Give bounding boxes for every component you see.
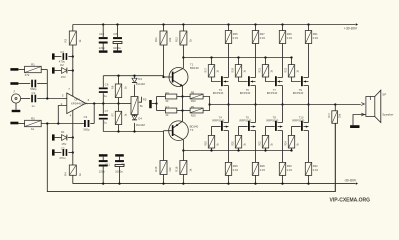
svg-text:R17: R17 xyxy=(327,112,331,117)
svg-text:0.33: 0.33 xyxy=(233,36,239,40)
resistor R17 gate (top row) xyxy=(211,58,213,65)
ground above C11 xyxy=(99,154,108,156)
ground at R1 xyxy=(10,68,18,71)
svg-text:D1: D1 xyxy=(61,130,65,134)
svg-text:R21: R21 xyxy=(259,67,262,72)
capacitor C7 1u xyxy=(102,104,104,114)
wire C11 to -rail xyxy=(102,166,104,183)
wire R23 to gate xyxy=(292,77,301,82)
node R30 at -rail xyxy=(281,182,283,184)
node feedback tap xyxy=(334,103,336,105)
node R18 at gate bus xyxy=(210,149,212,151)
node T2 emitter at R14 row xyxy=(181,109,183,111)
node T9 at output bus xyxy=(307,103,309,105)
svg-text:SP: SP xyxy=(382,92,386,96)
svg-text:OP1: OP1 xyxy=(74,98,80,102)
node R11 at +rail xyxy=(162,23,164,25)
wire top gate bus xyxy=(183,57,291,59)
capacitor C2 560p xyxy=(31,80,33,88)
svg-text:BD139: BD139 xyxy=(190,66,199,70)
ground at D1 xyxy=(52,134,55,140)
svg-text:+30-80V: +30-80V xyxy=(344,26,358,30)
resistor R29 0.33 (top row) xyxy=(282,25,284,31)
wire pin 7 supply xyxy=(72,91,74,96)
svg-text:IRFP240: IRFP240 xyxy=(240,91,251,95)
wire R15 to -rail xyxy=(163,175,165,184)
svg-text:2N4148: 2N4148 xyxy=(136,123,146,127)
svg-text:R20: R20 xyxy=(191,99,196,103)
svg-text:0.33: 0.33 xyxy=(313,36,319,40)
diode D4 2N4148 xyxy=(134,115,136,118)
wire R1 to node column xyxy=(41,69,47,71)
speaker SP xyxy=(361,103,364,106)
wire feedback resistor down xyxy=(334,123,336,191)
svg-text:220n: 220n xyxy=(99,170,106,174)
resistor R12 xyxy=(180,31,187,45)
svg-text:C6: C6 xyxy=(105,83,109,87)
wire R16 to -rail xyxy=(182,175,184,184)
wire gate to R18 xyxy=(212,127,221,136)
node R7 at bias bottom row xyxy=(117,130,119,132)
wire pin 2 to inverting node xyxy=(58,106,67,124)
svg-text:R29: R29 xyxy=(287,32,292,36)
svg-text:1u: 1u xyxy=(32,104,36,108)
wire gate to R22 xyxy=(266,127,275,136)
node C6 at output row xyxy=(102,102,104,104)
transistor T2 BD140 xyxy=(169,121,189,141)
wire T7 source to output bus xyxy=(282,86,284,105)
svg-text:R16: R16 xyxy=(174,166,178,171)
svg-text:IRFP9240: IRFP9240 xyxy=(212,119,225,123)
node D2 tap xyxy=(72,69,74,71)
svg-text:R7: R7 xyxy=(165,105,169,109)
node R22 at gate bus xyxy=(264,149,266,151)
svg-text:560p: 560p xyxy=(83,128,90,132)
resistor R2 1k xyxy=(25,120,42,126)
wire ground to D2 xyxy=(55,70,62,72)
op-amp OP1 KR544UD2A xyxy=(67,93,86,114)
node T3 at output bus xyxy=(227,103,229,105)
wire R32 to -rail xyxy=(308,175,310,183)
wire R28 to -rail xyxy=(255,175,257,183)
wire D1 to column xyxy=(68,137,73,139)
svg-text:33: 33 xyxy=(165,113,168,117)
wire jack ground lead xyxy=(15,103,17,110)
wire C8 to ground xyxy=(117,44,119,51)
wire R3 to pin7 node xyxy=(72,45,74,91)
svg-text:R6: R6 xyxy=(111,85,115,89)
node gate resistor R19 at gate bus xyxy=(237,56,239,58)
resistor R18 gate (bottom row) xyxy=(208,135,214,148)
svg-text:47k: 47k xyxy=(25,73,30,77)
node D1 tap xyxy=(72,136,74,138)
svg-text:R20: R20 xyxy=(191,113,196,117)
wire ground to R2 xyxy=(18,123,24,125)
wire R2 to inverting node xyxy=(41,123,84,125)
node R28 at -rail xyxy=(254,182,256,184)
resistor R27 0.33 (top row) xyxy=(255,25,257,31)
node pin2 riser at R2 row xyxy=(57,122,59,124)
wire C1 to op-amp pin 3 xyxy=(37,98,67,100)
svg-text:R24: R24 xyxy=(285,141,288,146)
MOSFET T9 IRFP240 xyxy=(301,76,303,86)
svg-text:15V: 15V xyxy=(61,75,66,79)
node C9 at -rail xyxy=(118,182,120,184)
wire +rail to R3 xyxy=(72,25,74,32)
svg-text:220n: 220n xyxy=(99,46,106,50)
svg-text:33: 33 xyxy=(165,99,168,103)
wire R25 to T3 drain xyxy=(228,44,230,78)
wire R26 to -rail xyxy=(228,175,230,183)
node C5 tap xyxy=(72,151,74,153)
svg-text:R11: R11 xyxy=(154,37,158,42)
svg-text:C7: C7 xyxy=(105,109,109,113)
svg-text:IRFP240: IRFP240 xyxy=(267,91,278,95)
connector J input jack xyxy=(11,94,20,103)
node source resistor R27 at +rail xyxy=(254,23,256,25)
node R16 at -rail xyxy=(182,182,184,184)
wire R9 to output node xyxy=(203,105,210,111)
wire gate to R20 xyxy=(239,127,248,136)
wire +rail to R11 xyxy=(163,25,165,32)
wire C3 to output riser xyxy=(90,123,94,125)
svg-text:1k: 1k xyxy=(31,127,35,131)
wire R11 to T1 base node xyxy=(163,45,165,77)
node T1 emitter at R13 row xyxy=(181,95,183,97)
wire R24 to gate bus xyxy=(291,148,293,151)
ground below C10 xyxy=(99,50,108,52)
ground at speaker xyxy=(350,125,359,128)
MOSFET T5 IRFP240 xyxy=(248,76,250,86)
svg-text:R1: R1 xyxy=(31,62,35,66)
node R15 at -rail xyxy=(162,182,164,184)
wire ground to C5 xyxy=(55,152,62,154)
svg-text:R32: R32 xyxy=(313,164,318,168)
node source resistor R29 at +rail xyxy=(281,23,283,25)
svg-text:IRFP9240: IRFP9240 xyxy=(266,119,279,123)
wire R29 to T7 drain xyxy=(282,44,284,78)
wire column to R4 xyxy=(72,153,74,166)
wire T9 source to output bus xyxy=(308,86,310,105)
node R6 at output row xyxy=(117,102,119,104)
svg-text:1u: 1u xyxy=(104,121,108,125)
node T1 collector / top gate bus xyxy=(182,56,184,58)
resistor R30 0.33 (bottom row) xyxy=(279,162,285,175)
svg-text:КР544УД2А: КР544УД2А xyxy=(71,102,88,106)
svg-text:R5: R5 xyxy=(143,98,147,102)
wire R7 to emitter column xyxy=(177,110,183,112)
node drive splitter xyxy=(155,102,157,104)
wire T6 source to R28 xyxy=(255,131,257,163)
resistor R7 33 bottom drive xyxy=(157,110,166,112)
svg-text:D2: D2 xyxy=(60,63,64,67)
trimmer resistor R5 5k xyxy=(131,97,138,115)
svg-text:R18: R18 xyxy=(205,141,208,146)
svg-text:C3: C3 xyxy=(84,115,88,119)
ground above C9 xyxy=(115,154,124,156)
transistor T1 BD139 xyxy=(169,68,188,87)
resistor R1 47k xyxy=(25,66,42,72)
svg-text:C8: C8 xyxy=(113,32,117,36)
svg-text:0.33: 0.33 xyxy=(287,36,293,40)
svg-text:D3: D3 xyxy=(138,77,142,81)
ground below C8 xyxy=(113,50,122,52)
svg-text:R17: R17 xyxy=(205,67,208,72)
svg-text:R9: R9 xyxy=(191,105,195,109)
wire ground to R1 xyxy=(18,69,24,71)
node gate resistor R23 at gate bus xyxy=(290,56,292,58)
svg-text:R22: R22 xyxy=(259,141,262,146)
ground at D2 xyxy=(52,67,55,73)
wire bias bottom row xyxy=(103,131,163,133)
wire compensation riser xyxy=(93,104,95,124)
node source resistor R31 at +rail xyxy=(307,23,309,25)
node source resistor R25 at +rail xyxy=(227,23,229,25)
wire C10 to ground xyxy=(102,44,104,51)
node output merge xyxy=(208,103,210,105)
resistor R4 xyxy=(69,165,76,175)
wire pin 6 output xyxy=(86,103,119,105)
ground at input jack xyxy=(12,110,21,112)
svg-text:-30-80V: -30-80V xyxy=(344,179,357,183)
ground at C5 xyxy=(52,149,55,155)
wire R5 wiper tap xyxy=(139,97,142,102)
svg-text:R8: R8 xyxy=(191,91,195,95)
wire T4 source to R26 xyxy=(228,131,230,163)
resistor R9 output merge bottom xyxy=(183,110,191,112)
svg-text:VIP-CXEMA.ORG: VIP-CXEMA.ORG xyxy=(330,198,371,204)
node T1 base xyxy=(162,76,164,78)
svg-text:1u: 1u xyxy=(104,94,108,98)
svg-text:R28: R28 xyxy=(260,164,265,168)
svg-text:R27: R27 xyxy=(260,32,265,36)
wire T5 source to output bus xyxy=(255,86,257,105)
wire bias top row xyxy=(103,75,163,77)
resistor R15 xyxy=(160,161,167,175)
svg-text:R2: R2 xyxy=(31,116,35,120)
wire bottom gate bus xyxy=(183,150,291,152)
wire +V top rail xyxy=(73,24,356,26)
ground at C4 xyxy=(52,53,55,59)
MOSFET T3 IRFP240 xyxy=(221,76,223,86)
wire T2 collector down xyxy=(182,140,184,161)
svg-text:0.33: 0.33 xyxy=(313,168,319,172)
node T7 at output bus xyxy=(281,103,283,105)
wire ground to C11 xyxy=(102,157,104,161)
wire C4 to column xyxy=(68,56,72,58)
wire input node column upper xyxy=(46,70,48,99)
resistor R22 gate (bottom row) xyxy=(262,135,268,148)
resistor R31 0.33 (top row) xyxy=(308,25,310,31)
wire cap to drive node xyxy=(152,103,157,105)
wire R21 to gate xyxy=(266,77,275,82)
svg-text:IRFP9240: IRFP9240 xyxy=(239,119,252,123)
svg-text:0.33: 0.33 xyxy=(287,168,293,172)
svg-text:R7: R7 xyxy=(111,113,115,117)
wire ground to C2 xyxy=(18,83,30,85)
resistor R7 bottom bias xyxy=(118,104,120,112)
resistor R26 0.33 (bottom row) xyxy=(225,162,231,175)
svg-text:22k: 22k xyxy=(168,37,172,42)
svg-text:IRFP9240: IRFP9240 xyxy=(292,119,305,123)
wire T6 drain to output bus xyxy=(255,105,257,123)
wire +rail to C10 xyxy=(102,25,104,38)
svg-text:2N4148: 2N4148 xyxy=(136,82,146,86)
wire pin 4 supply xyxy=(72,110,74,137)
node C11 at -rail xyxy=(102,182,104,184)
resistor R24 gate (bottom row) xyxy=(288,135,294,148)
svg-text:R26: R26 xyxy=(233,164,238,168)
wire T8 source to R30 xyxy=(282,131,284,163)
node R12 at +rail xyxy=(182,23,184,25)
svg-text:R25: R25 xyxy=(233,32,238,36)
svg-text:R30: R30 xyxy=(287,164,292,168)
wire drive riser xyxy=(156,97,158,111)
ground at R2 xyxy=(10,122,18,125)
wire D2 to column xyxy=(68,70,73,72)
node R26 at -rail xyxy=(227,182,229,184)
resistor R6 33 top drive xyxy=(157,96,166,98)
node D4 at bias bottom row xyxy=(133,130,135,132)
wire ground to C4 xyxy=(55,56,62,58)
wire R6 to emitter column xyxy=(177,96,183,98)
node feedback column at R2 row xyxy=(46,122,48,124)
svg-text:R6: R6 xyxy=(165,91,169,95)
capacitor C6 1u xyxy=(102,76,104,88)
wire speaker lower terminal xyxy=(353,115,366,126)
svg-text:33k: 33k xyxy=(338,113,342,118)
wire T4 drain to output bus xyxy=(228,105,230,123)
wire R27 to T5 drain xyxy=(255,44,257,78)
wire ground to D1 xyxy=(55,137,62,139)
resistor R19 gate (top row) xyxy=(238,58,240,65)
resistor R16 xyxy=(180,161,187,175)
wire R22 to gate bus xyxy=(265,148,267,151)
ground at C2 xyxy=(10,82,18,85)
wire R12 to T1 collector xyxy=(182,45,184,68)
svg-text:R12: R12 xyxy=(174,37,178,42)
resistor R8 output merge top xyxy=(183,96,191,98)
wire R31 to T9 drain xyxy=(308,44,310,78)
resistor R32 0.33 (bottom row) xyxy=(305,162,311,175)
wire output bus xyxy=(210,104,361,106)
node C4 tap xyxy=(72,55,74,57)
svg-text:R20: R20 xyxy=(232,141,235,146)
resistor R23 gate (top row) xyxy=(291,58,293,65)
svg-text:0.33: 0.33 xyxy=(233,168,239,172)
svg-text:C10: C10 xyxy=(99,32,105,36)
wire feedback return line xyxy=(47,123,335,191)
wire T1 emitter to column xyxy=(182,86,184,97)
node C8 at +rail xyxy=(116,23,118,25)
resistor R6 top bias xyxy=(117,75,119,77)
wire R30 to -rail xyxy=(282,175,284,183)
wire ground to C9 xyxy=(119,157,121,161)
node R32 at -rail xyxy=(307,182,309,184)
wire jack to C1 xyxy=(21,98,31,100)
node gate resistor R21 at gate bus xyxy=(264,56,266,58)
resistor R20 gate (bottom row) xyxy=(235,135,241,148)
wire +rail to C8 xyxy=(117,25,119,38)
resistor R3 xyxy=(69,31,76,45)
resistor R25 0.33 (top row) xyxy=(228,25,230,31)
svg-text:R4: R4 xyxy=(64,172,68,176)
MOSFET T7 IRFP240 xyxy=(275,76,277,86)
node gate resistor R17 at gate bus xyxy=(210,56,212,58)
node T5 at output bus xyxy=(254,103,256,105)
wire T2 emitter to column xyxy=(182,111,184,122)
wire T10 source to R32 xyxy=(308,131,310,163)
wire bias mid row xyxy=(119,103,132,105)
wire T10 drain to output bus xyxy=(308,105,310,123)
svg-text:IRFP240: IRFP240 xyxy=(293,91,304,95)
svg-text:R3: R3 xyxy=(64,38,68,42)
wire -V bottom rail xyxy=(73,183,356,185)
svg-text:Speaker: Speaker xyxy=(382,113,393,117)
svg-text:T2: T2 xyxy=(190,128,194,132)
svg-text:IRFP240: IRFP240 xyxy=(213,91,224,95)
resistor R21 gate (top row) xyxy=(265,58,267,65)
capacitor bias feed xyxy=(149,100,152,108)
svg-text:470u: 470u xyxy=(59,156,66,160)
wire T2 base to R15 xyxy=(163,131,165,161)
svg-text:R15: R15 xyxy=(154,166,158,171)
wire gate to R24 xyxy=(292,127,301,136)
svg-text:22k: 22k xyxy=(168,167,172,172)
svg-text:15V: 15V xyxy=(61,142,66,146)
node C10 at +rail xyxy=(102,23,104,25)
wire C9 to -rail xyxy=(119,166,121,183)
wire T3 source to output bus xyxy=(228,86,230,105)
node T2 collector / bottom gate bus xyxy=(182,149,184,151)
wire +rail to R12 xyxy=(182,25,184,32)
wire C2 to node column xyxy=(37,83,47,85)
node R20 at gate bus xyxy=(237,149,239,151)
svg-text:R19: R19 xyxy=(232,67,235,72)
wire pin4 column to C5 row xyxy=(72,138,74,153)
svg-text:R23: R23 xyxy=(285,67,288,72)
wire R19 to gate xyxy=(239,77,248,82)
wire T8 drain to output bus xyxy=(282,105,284,123)
svg-text:0.33: 0.33 xyxy=(260,168,266,172)
resistor R11 xyxy=(160,31,167,45)
svg-text:0.33: 0.33 xyxy=(260,36,266,40)
svg-text:C1: C1 xyxy=(32,91,36,95)
resistor R28 0.33 (bottom row) xyxy=(252,162,258,175)
svg-text:R31: R31 xyxy=(313,32,318,36)
diode D3 2N4148 xyxy=(133,75,135,77)
node compensation riser xyxy=(93,102,95,104)
resistor R17fb feedback xyxy=(334,105,336,111)
wire C5 to column xyxy=(68,152,72,154)
node R24 at gate bus xyxy=(290,149,292,151)
wire R17 to gate xyxy=(212,77,221,82)
svg-text:D4: D4 xyxy=(138,117,142,121)
wire R4 to -rail xyxy=(72,175,74,183)
wire R18 to gate bus xyxy=(211,148,213,151)
wire R20 to gate bus xyxy=(238,148,240,151)
node input at pin3 xyxy=(46,97,48,99)
wire R8 to output node xyxy=(203,97,210,105)
wire emitter column xyxy=(182,97,184,111)
